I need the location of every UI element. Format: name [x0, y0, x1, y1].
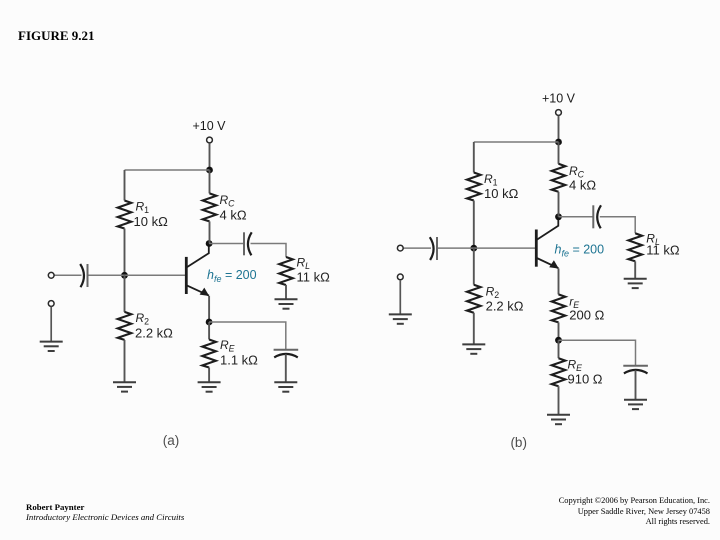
resistor RC (a) 4 kOhm: [203, 193, 217, 221]
svg-text:4 kΩ: 4 kΩ: [220, 208, 247, 223]
wire RE top lead (a): [208, 322, 210, 340]
resistor RE (b) 910 Ohm: [552, 358, 566, 386]
capacitor input coupling (b) curved plate: [430, 237, 434, 260]
wire emitter node to bypass capacitor (a): [209, 322, 286, 350]
svg-text:2.2 kΩ: 2.2 kΩ: [135, 326, 173, 341]
transistor Q (b) base bar: [535, 230, 538, 267]
svg-text:10 kΩ: 10 kΩ: [484, 186, 519, 201]
wire base horizontal (a): [88, 274, 187, 276]
transistor Q (b) collector lead: [537, 217, 559, 240]
capacitor input coupling (a) curved plate: [80, 264, 84, 287]
capacitor output coupling (b) curved plate: [597, 205, 601, 228]
wire R1 bottom to base node (b): [473, 201, 475, 249]
resistor R1 (b) 10 kOhm: [467, 173, 481, 201]
figure title: [18, 28, 95, 44]
wire RE top lead (b): [558, 340, 560, 358]
transistor Q (b) emitter lead: [537, 258, 559, 268]
wire R2 top lead (a): [124, 275, 126, 312]
node base junction dot (a): [121, 272, 128, 279]
wire collector node to output capacitor (b): [559, 216, 594, 218]
wire base horizontal (b): [437, 247, 536, 249]
svg-text:(a): (a): [163, 433, 180, 448]
svg-text:RC: RC: [220, 193, 236, 209]
wire ground terminal lead (b): [399, 280, 401, 314]
node top junction dot (b): [555, 139, 562, 146]
capacitor bypass (b) straight plate: [623, 365, 648, 367]
wire emitter to rE (b): [558, 269, 560, 295]
svg-text:(b): (b): [510, 435, 527, 450]
input terminal (a): [48, 272, 54, 278]
ground R2 (a): [113, 382, 136, 391]
transistor Q (a) emitter arrowhead: [200, 288, 210, 296]
capacitor bypass (a) straight plate: [274, 349, 299, 351]
ground RE (b): [547, 415, 570, 424]
transistor Q (a) emitter lead: [187, 285, 209, 295]
svg-text:+10 V: +10 V: [542, 92, 576, 106]
transistor Q (a) collector lead: [187, 243, 209, 267]
resistor rE (b) 200 Ohm: [552, 294, 566, 322]
wire R2 top lead (b): [473, 248, 475, 285]
node emitter junction dot (a): [206, 319, 213, 326]
capacitor bypass (a) curved plate: [274, 354, 298, 358]
footer copyright: [559, 496, 710, 528]
resistor R2 (a) 2.2 kOhm: [118, 312, 132, 340]
wire supply to top node (b): [558, 116, 560, 142]
svg-text:R1: R1: [136, 200, 150, 216]
capacitor input coupling (a) straight plate: [87, 264, 89, 287]
ground bypass capacitor (b): [624, 400, 647, 409]
input ground terminal (b): [397, 274, 403, 280]
wire top horizontal (b): [474, 141, 559, 143]
wire R2 bottom lead (a): [124, 340, 126, 382]
svg-text:R2: R2: [136, 311, 150, 327]
wire input terminal to capacitor (b): [403, 247, 431, 249]
svg-text:+10 V: +10 V: [192, 119, 226, 133]
transistor Q (a) base bar: [185, 257, 188, 294]
svg-text:910 Ω: 910 Ω: [568, 372, 603, 387]
svg-text:hfe = 200: hfe = 200: [555, 243, 605, 259]
ground bypass capacitor (a): [274, 382, 297, 391]
wire R1 top lead (b): [473, 142, 475, 173]
ground R2 (b): [462, 344, 485, 353]
wire emitter to emitter node (a): [208, 296, 210, 322]
node top junction dot (a): [206, 167, 213, 174]
node collector dot (b): [555, 213, 562, 220]
capacitor output coupling (a) straight plate: [243, 232, 245, 255]
ground RL (a): [275, 299, 298, 308]
resistor R2 (b) 2.2 kOhm: [467, 285, 481, 313]
wire R1 bottom to base node (a): [124, 229, 126, 276]
svg-text:11 kΩ: 11 kΩ: [646, 243, 680, 258]
svg-text:hfe = 200: hfe = 200: [207, 268, 257, 284]
resistor R1 (a) 10 kOhm: [118, 201, 132, 229]
wire emitter node to bypass capacitor (b): [559, 340, 636, 366]
resistor RL (b) 11 kOhm: [628, 233, 642, 261]
svg-text:RE: RE: [220, 338, 235, 354]
resistor RC (b) 4 kOhm: [552, 164, 566, 192]
wire RC top lead (b): [558, 142, 560, 164]
wire output capacitor to RL (b): [600, 217, 635, 234]
wire R1 top lead (a): [124, 170, 126, 201]
capacitor input coupling (b) straight plate: [436, 237, 438, 260]
wire RC top lead (a): [209, 170, 211, 193]
wire bypass capacitor to ground (a): [285, 354, 287, 382]
wire RC bottom to collector node (b): [558, 192, 560, 217]
svg-text:1.1 kΩ: 1.1 kΩ: [220, 353, 258, 368]
wire RE bottom lead (a): [208, 368, 210, 383]
capacitor output coupling (a) curved plate: [248, 232, 252, 255]
transistor Q (b) emitter arrowhead: [549, 260, 559, 268]
svg-text:10 kΩ: 10 kΩ: [134, 214, 169, 229]
wire RE bottom lead (b): [558, 386, 560, 415]
resistor RE (a) 1.1 kOhm: [202, 340, 216, 368]
supply terminal (a): [207, 137, 213, 143]
svg-text:200 Ω: 200 Ω: [569, 308, 604, 323]
ground RE (a): [198, 382, 221, 391]
capacitor bypass (b) curved plate: [624, 370, 648, 374]
ground RL (b): [624, 279, 647, 288]
capacitor output coupling (b) straight plate: [592, 205, 594, 228]
wire top horizontal (a): [125, 169, 210, 171]
wire RL bottom lead (a): [285, 285, 287, 299]
wire input terminal to capacitor (a): [54, 274, 82, 276]
footer authors: [26, 502, 184, 523]
supply terminal (b): [556, 110, 562, 116]
wire R2 bottom lead (b): [473, 313, 475, 345]
wire rE bottom to emitter node (b): [558, 322, 560, 340]
node base junction dot (b): [470, 245, 477, 252]
node emitter junction dot (b): [555, 337, 562, 344]
wire supply to top node (a): [209, 143, 211, 170]
svg-text:4 kΩ: 4 kΩ: [569, 178, 596, 193]
wire RL bottom lead (b): [634, 261, 636, 278]
input ground terminal (a): [48, 301, 54, 307]
node collector dot (a): [206, 240, 213, 247]
resistor RL (a) 11 kOhm: [279, 257, 293, 285]
wire ground terminal lead (a): [50, 307, 52, 342]
wire bypass capacitor to ground (b): [635, 370, 637, 400]
wire output capacitor to RL (a): [251, 244, 287, 258]
svg-text:11 kΩ: 11 kΩ: [297, 270, 331, 285]
wire collector node to output capacitor (a): [209, 243, 244, 245]
input terminal (b): [397, 245, 403, 251]
ground input (a): [40, 342, 63, 351]
ground input (b): [389, 314, 412, 323]
wire RC bottom to collector node (a): [209, 221, 211, 243]
svg-text:2.2 kΩ: 2.2 kΩ: [486, 299, 524, 314]
